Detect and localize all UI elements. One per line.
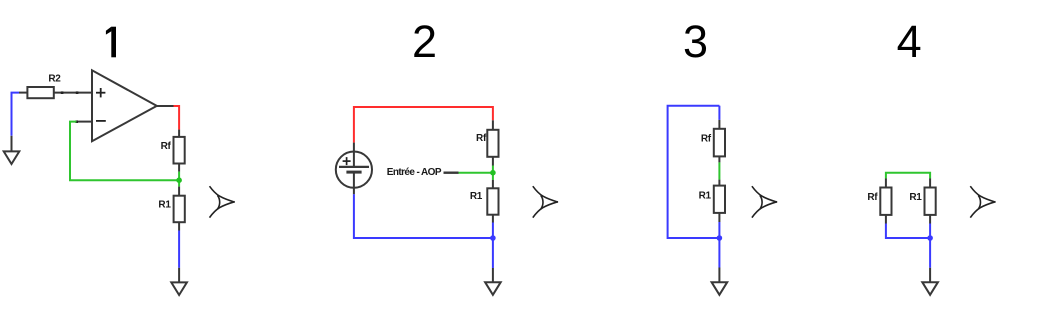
op-amp U1 bbox=[92, 70, 157, 141]
wire black lead ground bbox=[11, 136, 13, 152]
wire op-amp output black bbox=[157, 105, 174, 107]
eye probe panel 4 bbox=[970, 186, 995, 217]
wire black Rf top lead panel 2 bbox=[492, 120, 494, 130]
wire green feedback bbox=[70, 122, 179, 181]
junction node blue panel 4 bbox=[927, 235, 933, 241]
svg-text:R2: R2 bbox=[48, 74, 61, 85]
wire green horizontal entree bbox=[458, 172, 493, 174]
wire blue bottom panel 4 bbox=[886, 224, 930, 239]
node dot b bbox=[76, 91, 79, 94]
wire R2 to op-amp + input bbox=[54, 92, 92, 94]
voltage source V1 bbox=[336, 152, 372, 188]
wire black R1 bottom lead panel 4 bbox=[929, 215, 931, 224]
wire black R1 top lead panel 4 bbox=[929, 179, 931, 188]
svg-text:3: 3 bbox=[683, 16, 708, 67]
wire blue from R2 to ground bbox=[12, 93, 20, 136]
resistor Rf panel 3 bbox=[714, 129, 725, 157]
wire blue right bottom panel 4 bbox=[929, 224, 931, 268]
junction node blue panel 3 bbox=[717, 235, 723, 241]
wire black ground lead panel 4 bbox=[929, 268, 931, 282]
wire green node panel 2 bbox=[492, 166, 494, 181]
wire black Rf top lead panel 3 bbox=[718, 120, 720, 129]
wire blue to ground panel 1 bbox=[178, 231, 180, 268]
wire black R1 bottom lead panel 3 bbox=[718, 213, 720, 222]
wire black source top lead bbox=[353, 143, 355, 152]
wire blue right top panel 3 bbox=[718, 106, 720, 120]
ground bottom panel 1 bbox=[171, 282, 187, 295]
wire black Rf top lead bbox=[178, 130, 180, 137]
wire black R1 top lead panel 2 bbox=[492, 180, 494, 188]
svg-text:Rf: Rf bbox=[161, 141, 172, 152]
svg-text:R1: R1 bbox=[470, 191, 483, 202]
ground panel 4 bbox=[922, 282, 938, 295]
wire blue loop panel 3 bbox=[668, 106, 720, 238]
node dot c bbox=[75, 120, 78, 123]
resistor R1 panel 3 bbox=[714, 186, 725, 213]
eye probe panel 2 bbox=[533, 186, 558, 217]
wire green middle panel 3 bbox=[718, 162, 720, 179]
wire green top panel 4 bbox=[886, 173, 930, 179]
wire blue to ground panel 3 bbox=[718, 222, 720, 268]
svg-text:R1: R1 bbox=[699, 191, 712, 202]
svg-text:2: 2 bbox=[412, 16, 437, 67]
wire black stub entree bbox=[444, 171, 459, 173]
wire black ground lead panel 1 bbox=[178, 268, 180, 283]
svg-text:Entrée - AOP: Entrée - AOP bbox=[387, 167, 442, 178]
wire green at node bbox=[178, 172, 180, 187]
junction node green panel 2 bbox=[490, 170, 496, 176]
eye probe panel 3 bbox=[752, 186, 777, 217]
resistor Rf panel 2 bbox=[487, 130, 498, 157]
wire blue bottom loop panel 2 bbox=[354, 194, 493, 238]
wire black Rf top lead panel 4 bbox=[885, 179, 887, 188]
ground panel 3 bbox=[712, 282, 728, 295]
wire black R1 top lead bbox=[178, 187, 180, 196]
wire red top loop panel 2 bbox=[354, 107, 493, 143]
resistor Rf panel 1 bbox=[174, 137, 185, 164]
eye probe panel 1 bbox=[210, 186, 235, 217]
ground panel 2 bbox=[485, 282, 501, 295]
wire black Rf bottom lead panel 3 bbox=[718, 156, 720, 162]
wire black ground lead panel 3 bbox=[718, 268, 720, 283]
node dot a bbox=[61, 91, 64, 94]
op-amp plus sign bbox=[96, 88, 105, 97]
wire black Rf bottom lead bbox=[178, 164, 180, 172]
wire black Rf bottom lead panel 4 bbox=[885, 215, 887, 224]
wire op-amp - input pin bbox=[77, 121, 93, 123]
wire blue to ground panel 2 bbox=[492, 223, 494, 269]
resistor R2 bbox=[27, 87, 53, 98]
svg-text:Rf: Rf bbox=[701, 133, 712, 144]
wire black R2 left lead bbox=[19, 92, 27, 94]
svg-text:R1: R1 bbox=[909, 192, 922, 203]
svg-text:Rf: Rf bbox=[476, 133, 487, 144]
wire red output to Rf bbox=[174, 106, 180, 130]
resistor R1 panel 1 bbox=[174, 196, 185, 223]
wire black ground lead panel 2 bbox=[492, 268, 494, 282]
svg-text:4: 4 bbox=[897, 16, 922, 67]
junction node blue panel 2 bbox=[490, 235, 496, 241]
voltage source plus sign bbox=[343, 157, 351, 165]
resistor R1 panel 2 bbox=[487, 188, 498, 214]
wire black R1 bottom lead bbox=[178, 222, 180, 230]
wire black R1 bottom lead panel 2 bbox=[492, 215, 494, 223]
svg-text:R1: R1 bbox=[158, 200, 171, 211]
panel number 1 bbox=[111, 27, 116, 58]
svg-text:Rf: Rf bbox=[867, 192, 878, 203]
resistor R1 panel 4 bbox=[925, 188, 936, 215]
wire black source bottom lead bbox=[353, 188, 355, 195]
wire black Rf bottom lead panel 2 bbox=[492, 157, 494, 166]
ground left panel 1 bbox=[4, 151, 20, 164]
wire black R1 top lead panel 3 bbox=[718, 180, 720, 186]
junction node green panel 1 bbox=[176, 177, 182, 183]
op-amp minus sign bbox=[96, 120, 106, 122]
resistor Rf panel 4 bbox=[880, 188, 891, 215]
